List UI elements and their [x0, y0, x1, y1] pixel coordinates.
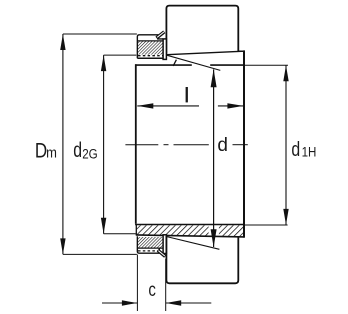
svg-text:c: c: [148, 280, 156, 301]
svg-text:1H: 1H: [302, 145, 317, 160]
svg-text:2G: 2G: [82, 146, 98, 161]
svg-text:d: d: [291, 139, 300, 161]
svg-text:m: m: [46, 145, 57, 161]
svg-text:d: d: [217, 135, 228, 156]
svg-text:d: d: [73, 138, 82, 162]
